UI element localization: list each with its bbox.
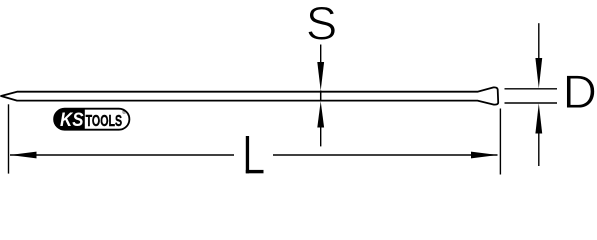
S lower dimension line bbox=[320, 127, 322, 146]
S upper dimension line bbox=[320, 45, 322, 64]
svg-text:S: S bbox=[306, 0, 337, 49]
D upper dimension line bbox=[538, 23, 540, 59]
svg-text:KS: KS bbox=[60, 110, 84, 131]
D upper extension line bbox=[505, 88, 558, 90]
L left arrowhead (points left) bbox=[10, 152, 37, 159]
svg-text:TOOLS: TOOLS bbox=[86, 113, 123, 130]
S lower arrowhead (points up to bar bottom) bbox=[317, 101, 324, 127]
svg-text:D: D bbox=[563, 66, 597, 119]
D lower extension line bbox=[505, 102, 558, 104]
L left extension line bbox=[8, 104, 10, 173]
svg-text:®: ® bbox=[122, 109, 126, 116]
S upper arrowhead (points down to bar top) bbox=[317, 62, 324, 91]
pry bar body (pointed tip left, flared chisel head right) bbox=[1, 87, 498, 104]
dimension L label foot bbox=[246, 170, 264, 173]
D upper arrowhead (points down) bbox=[535, 58, 542, 88]
dimension L label stem bbox=[246, 136, 249, 173]
KS TOOLS logo pill outline bbox=[54, 109, 129, 130]
D lower dimension line bbox=[538, 133, 540, 166]
D lower arrowhead (points up) bbox=[535, 103, 542, 133]
L dimension line left segment bbox=[10, 154, 234, 156]
L dimension line right segment bbox=[273, 154, 498, 156]
S thin line crossing bar bbox=[320, 91, 322, 102]
KS TOOLS logo black left section bbox=[54, 109, 85, 130]
L right extension line bbox=[499, 109, 501, 175]
L right arrowhead (points right) bbox=[471, 152, 498, 159]
